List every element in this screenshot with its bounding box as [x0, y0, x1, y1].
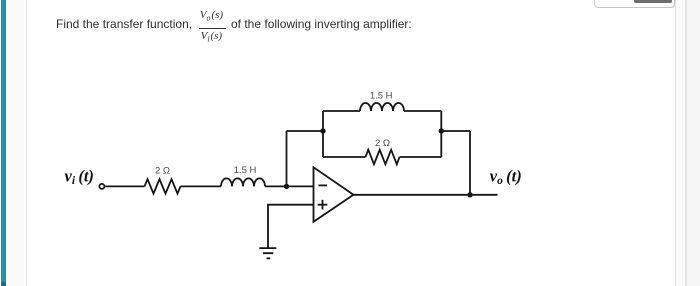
- wire L1 to op-amp inverting input: [265, 185, 314, 187]
- wire node A up to feedback: [286, 131, 288, 186]
- svg-text:vo (t): vo (t): [490, 166, 522, 187]
- feedback top wire right: [404, 110, 441, 112]
- top-right cut-off box: [594, 0, 675, 8]
- left teal scrollbar dark tip: [1, 282, 7, 286]
- svg-text:1.5 H: 1.5 H: [234, 165, 257, 176]
- title text left part: [56, 18, 192, 30]
- svg-text:vi (t): vi (t): [65, 166, 94, 187]
- feedback left vertical wire: [322, 111, 324, 157]
- op-amp U1 triangle: [314, 167, 354, 222]
- op-amp output wire: [354, 194, 498, 196]
- wire down to output node: [469, 131, 471, 195]
- top-right dark bar: [634, 0, 672, 3]
- wire feedback to output vertical: [441, 130, 470, 132]
- feedback bottom wire right: [400, 156, 442, 158]
- left sidebar pale gutter: [0, 0, 27, 286]
- wire to feedback left node: [287, 130, 324, 132]
- resistor R2 2ohm feedback: [366, 150, 400, 165]
- title text right part: [231, 18, 412, 30]
- wire non-inverting input: [268, 205, 314, 248]
- right inner faint line: [682, 0, 683, 286]
- inductor L1 1.5H: [221, 178, 265, 186]
- right scrollbar track line: [685, 0, 687, 286]
- ground: [259, 248, 276, 258]
- left teal scrollbar: [1, 0, 7, 282]
- svg-text:2 Ω: 2 Ω: [375, 138, 390, 149]
- feedback top wire left: [323, 110, 360, 112]
- input terminal: [99, 184, 104, 189]
- right divider line: [675, 0, 676, 286]
- wire terminal to R1: [105, 185, 144, 187]
- node A junction dot: [284, 184, 289, 189]
- left faint divider line: [26, 0, 27, 286]
- feedback right node dot: [439, 128, 444, 133]
- svg-text:1.5 H: 1.5 H: [370, 91, 393, 102]
- inductor L2 1.5H feedback: [360, 103, 404, 111]
- fraction denominator Vi(s): [201, 31, 223, 45]
- right gray gutter: [676, 0, 700, 286]
- feedback right vertical wire: [440, 111, 442, 157]
- svg-text:2 Ω: 2 Ω: [155, 165, 170, 176]
- feedback bottom wire left: [323, 156, 366, 158]
- op-amp plus sign: [318, 200, 328, 210]
- op-amp minus sign: [319, 184, 328, 186]
- fraction numerator Vo(s): [200, 10, 223, 24]
- output node dot: [467, 192, 472, 197]
- resistor R1 2ohm: [145, 179, 181, 193]
- wire R1 to L1: [181, 185, 222, 187]
- feedback left node dot: [320, 128, 325, 133]
- fraction bar: [199, 28, 226, 29]
